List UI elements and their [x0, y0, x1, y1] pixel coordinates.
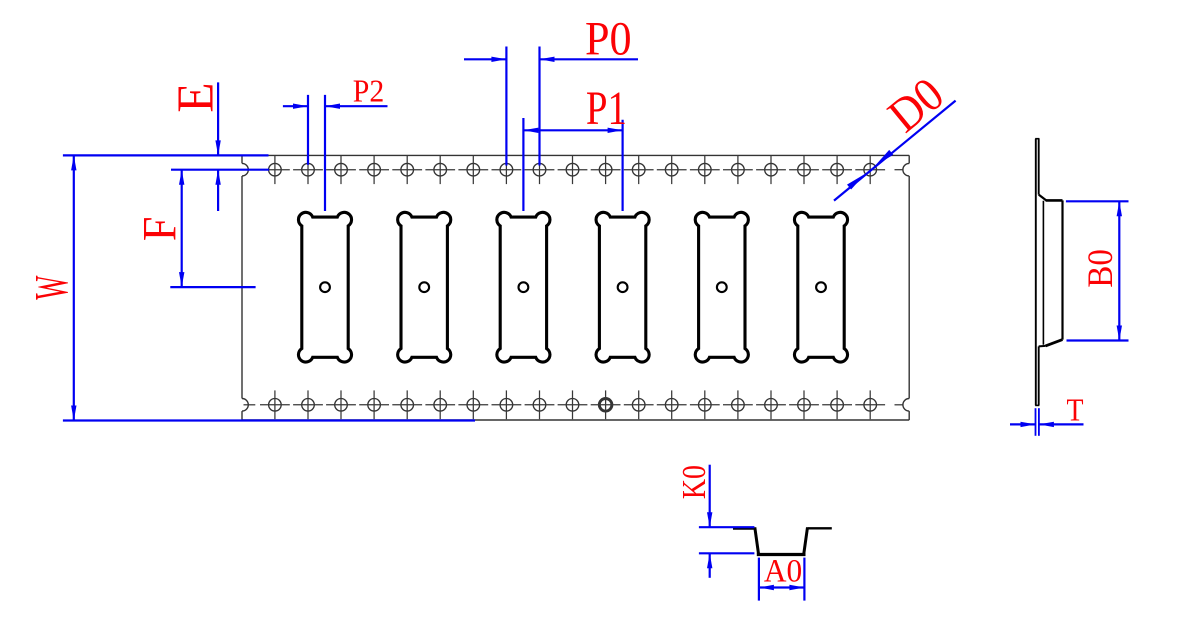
dimension A0 line with arrows	[759, 585, 805, 590]
component pocket 5	[695, 212, 748, 362]
dimension E line with arrows	[215, 82, 220, 211]
svg-text:B0: B0	[1081, 249, 1121, 288]
sprocket hole top 18	[822, 155, 852, 184]
dimension D0 leader line with arrows	[834, 101, 956, 201]
dimension W line with arrows	[71, 155, 76, 420]
dimension B0 extension lines	[1066, 201, 1129, 340]
sprocket hole bottom 2	[293, 390, 323, 419]
dimension K0 line with arrows	[707, 465, 712, 578]
label T	[1066, 393, 1083, 428]
label P1	[586, 82, 627, 135]
svg-text:K0: K0	[675, 465, 713, 499]
sprocket hole bottom 5	[392, 390, 422, 419]
sprocket hole top 2	[293, 155, 323, 184]
label W	[26, 275, 78, 300]
dimension P1 line with arrows	[523, 128, 622, 133]
sprocket hole bottom 17	[789, 390, 819, 419]
component pocket 6	[794, 212, 847, 362]
sprocket hole top 4	[359, 155, 389, 184]
sprocket hole top 6	[425, 155, 455, 184]
label K0	[675, 465, 713, 499]
sprocket hole top 14	[690, 155, 720, 184]
sprocket hole bottom 19	[855, 390, 885, 419]
label B0	[1081, 249, 1121, 288]
sprocket hole bottom 11	[591, 390, 621, 419]
svg-text:F: F	[133, 217, 186, 242]
edge notch centerlines	[244, 170, 903, 405]
component pocket 2	[398, 212, 451, 362]
dimension W extension lines	[63, 155, 475, 420]
label P0	[585, 12, 632, 65]
svg-text:E: E	[166, 83, 223, 113]
dimension T line with arrows	[1010, 422, 1084, 427]
component pocket 3	[497, 212, 550, 362]
sprocket hole bottom 13	[657, 390, 687, 419]
sprocket hole top 9	[525, 155, 555, 184]
sprocket hole top 1	[260, 155, 290, 184]
svg-text:P0: P0	[585, 12, 632, 65]
label P2	[353, 72, 384, 108]
component pocket 1	[298, 212, 351, 362]
dimension F extension line	[170, 286, 255, 288]
dimension P2 line with arrows	[283, 104, 388, 109]
sprocket hole top 17	[789, 155, 819, 184]
sprocket hole bottom 18	[822, 390, 852, 419]
dimension P1 extension lines	[523, 118, 622, 211]
svg-text:P1: P1	[586, 82, 627, 135]
sprocket hole bottom 9	[525, 390, 555, 419]
svg-text:P2: P2	[353, 72, 384, 108]
sprocket hole top 12	[624, 155, 654, 184]
label F	[133, 217, 186, 242]
dimension P0 extension lines	[506, 47, 539, 166]
label A0	[764, 552, 802, 589]
component pocket 4	[596, 212, 649, 362]
sprocket hole bottom 12	[624, 390, 654, 419]
carrier tape outline	[242, 155, 909, 420]
sprocket hole bottom 7	[458, 390, 488, 419]
sprocket hole bottom 16	[756, 390, 786, 419]
sprocket hole top 8	[492, 155, 522, 184]
dimension K0 extension lines	[699, 527, 755, 553]
sprocket hole bottom 4	[359, 390, 389, 419]
label E	[166, 83, 223, 113]
svg-text:A0: A0	[764, 552, 802, 589]
dimension P0 line with arrows	[464, 57, 638, 62]
sprocket hole top 3	[326, 155, 356, 184]
sprocket hole top 10	[558, 155, 588, 184]
sprocket hole top 19	[855, 155, 885, 184]
dimension P2 extension lines	[308, 95, 325, 211]
sprocket hole top 15	[723, 155, 753, 184]
sprocket hole top 16	[756, 155, 786, 184]
sprocket hole bottom 3	[326, 390, 356, 419]
sprocket hole bottom 6	[425, 390, 455, 419]
svg-text:W: W	[26, 275, 78, 300]
sprocket hole bottom 15	[723, 390, 753, 419]
dimension E extension line	[171, 169, 269, 171]
dimension F line with arrows	[179, 170, 184, 287]
sprocket hole top 7	[458, 155, 488, 184]
sprocket hole bottom 10	[558, 390, 588, 419]
dimension A0 extension lines	[759, 558, 805, 601]
sprocket hole top 5	[392, 155, 422, 184]
pocket cross-section detail	[733, 527, 832, 554]
sprocket hole top 13	[657, 155, 687, 184]
svg-text:T: T	[1066, 393, 1083, 428]
side view tape profile	[1035, 138, 1062, 405]
label D0	[878, 67, 953, 142]
dimension T extension lines	[1036, 408, 1039, 436]
dimension B0 line with arrows	[1117, 201, 1122, 340]
sprocket hole bottom 1	[260, 390, 290, 419]
sprocket hole bottom 14	[690, 390, 720, 419]
sprocket hole top 11	[591, 155, 621, 184]
sprocket hole bottom 8	[492, 390, 522, 419]
